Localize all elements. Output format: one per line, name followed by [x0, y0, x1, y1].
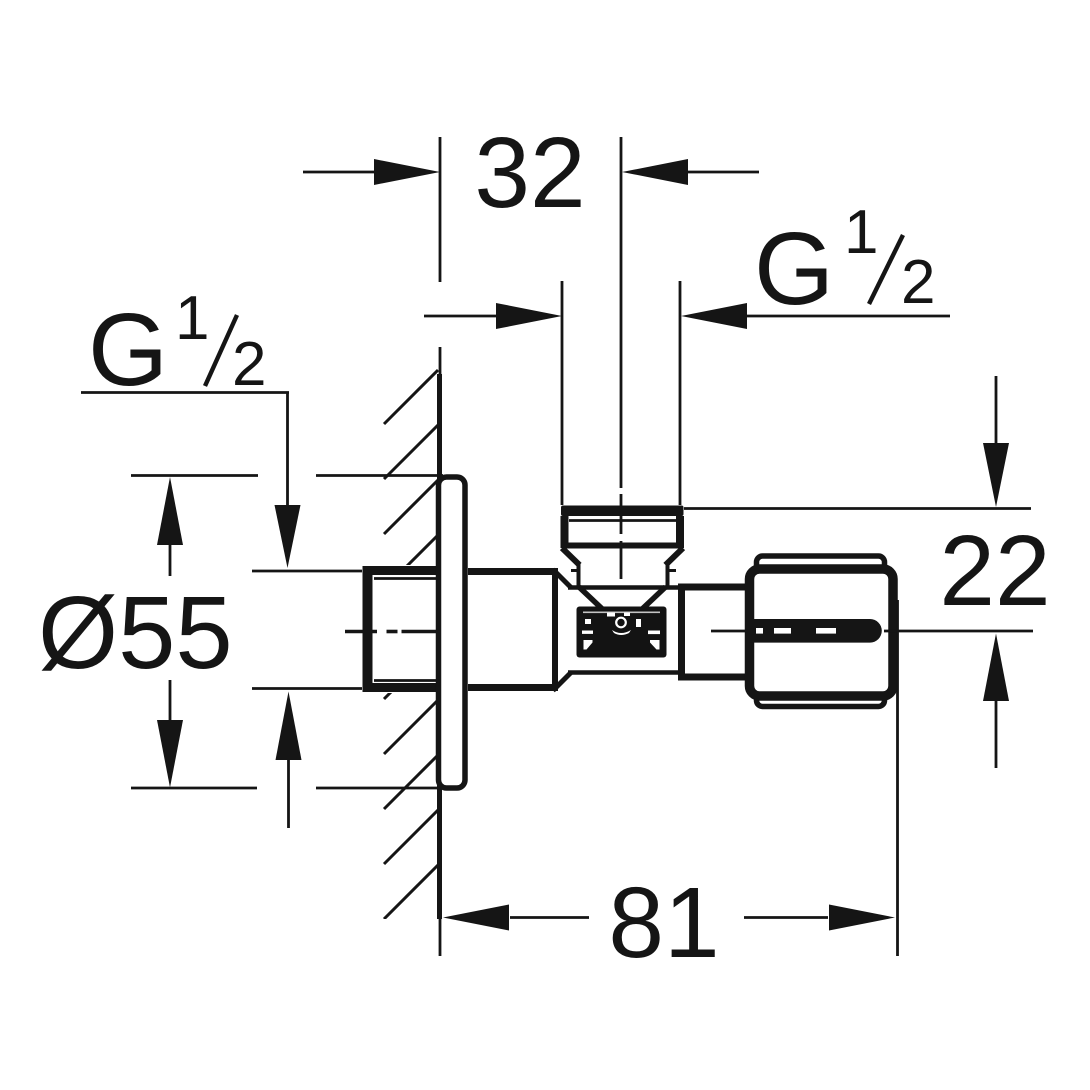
label G1/2 top right — [754, 198, 935, 326]
22 top extension line — [684, 507, 1031, 510]
dimension diameter 55 top extension line — [131, 474, 443, 477]
cone right — [631, 587, 666, 620]
label G1/2 left — [88, 284, 266, 407]
svg-text:G: G — [88, 292, 168, 407]
thread bottom extension line — [252, 687, 362, 690]
chamfer body top-left — [553, 570, 571, 588]
svg-text:2: 2 — [232, 330, 266, 399]
axis centerline right — [711, 630, 1033, 633]
dimension G1/2 top line left arrow — [424, 303, 562, 329]
inlet centerline left — [345, 630, 437, 634]
dimension diameter 55 up arrow — [157, 477, 183, 576]
handle main body — [750, 569, 894, 696]
dimension 81 right arrow — [744, 905, 895, 931]
svg-text:Ø55: Ø55 — [38, 575, 233, 690]
outlet neck nub right — [667, 569, 676, 572]
leader G1/2 left underline — [81, 391, 289, 394]
svg-text:2: 2 — [901, 248, 935, 317]
chamfer body bottom-left — [553, 673, 571, 691]
outlet taper right — [666, 548, 684, 565]
central block top edge — [568, 585, 678, 590]
handle right extension line — [896, 600, 899, 956]
dimension 32 line left arrow — [303, 159, 440, 185]
handle slot — [749, 619, 882, 643]
handle top rim — [757, 556, 885, 572]
escutcheon flange — [439, 477, 466, 788]
outlet neck right — [666, 562, 670, 588]
outlet centerline vertical — [620, 137, 623, 579]
outlet nut body — [564, 516, 681, 548]
svg-text:81: 81 — [608, 867, 719, 979]
handle bottom rim — [757, 691, 885, 707]
dimension 32 line right arrow — [622, 159, 759, 185]
extension line wall top (for 32) — [439, 137, 442, 282]
wall hatching — [384, 370, 438, 919]
thread bottom up arrow — [276, 692, 302, 829]
body right section — [678, 584, 752, 681]
wall line — [438, 347, 441, 956]
GROHE logo box — [577, 607, 667, 658]
cone left — [579, 587, 614, 620]
outlet neck left — [577, 562, 581, 588]
svg-text:32: 32 — [474, 117, 585, 229]
dimension 22 up arrow — [983, 634, 1009, 769]
outlet taper left — [562, 548, 580, 565]
body left section — [468, 568, 557, 691]
leader G1/2 left vertical + down arrow — [275, 393, 301, 569]
svg-text:22: 22 — [939, 515, 1050, 627]
svg-text:1: 1 — [175, 284, 209, 353]
dimension G1/2 top line right arrow — [681, 303, 950, 329]
dimension 22 down arrow — [983, 376, 1009, 507]
thread top extension line — [252, 570, 362, 573]
svg-text:G: G — [754, 211, 834, 326]
central block bottom edge — [568, 670, 678, 675]
dimension diameter 55 bottom extension line — [131, 787, 443, 790]
extension line nut right — [679, 281, 682, 505]
outlet nut top band — [561, 506, 684, 517]
svg-text:1: 1 — [844, 198, 878, 267]
outlet neck nub left — [571, 569, 579, 572]
extension line nut left — [561, 281, 564, 505]
dimension diameter 55 down arrow — [157, 680, 183, 788]
thread block — [363, 566, 441, 692]
dimension 81 left arrow — [443, 905, 589, 931]
